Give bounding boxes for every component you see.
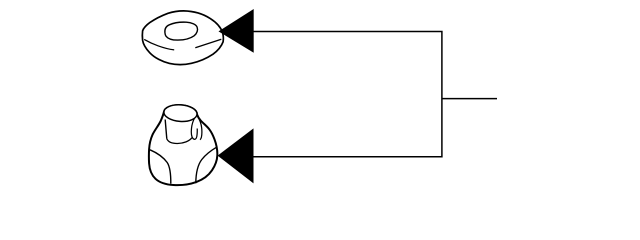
cylinder left side: [165, 120, 167, 139]
grommet part (top) outer silhouette: [142, 11, 223, 65]
grommet side accent line left: [144, 39, 174, 50]
middle stub line: [442, 98, 497, 100]
arrowhead to grommet: [219, 9, 254, 53]
right neck crease with bottom hook: [198, 117, 202, 140]
arrowhead to cushion: [218, 128, 254, 183]
cushion part (bottom) outer silhouette: [149, 105, 217, 185]
grommet side accent line right: [195, 39, 221, 48]
cylinder base arc: [167, 138, 192, 144]
right front crease: [196, 147, 217, 183]
leader line bracket (top, vertical, bottom): [253, 31, 442, 156]
grommet center hole: [165, 22, 198, 40]
cylinder right side hairpin crease: [191, 118, 197, 139]
left front crease: [150, 150, 171, 184]
cushion top cylinder ellipse: [163, 104, 197, 123]
